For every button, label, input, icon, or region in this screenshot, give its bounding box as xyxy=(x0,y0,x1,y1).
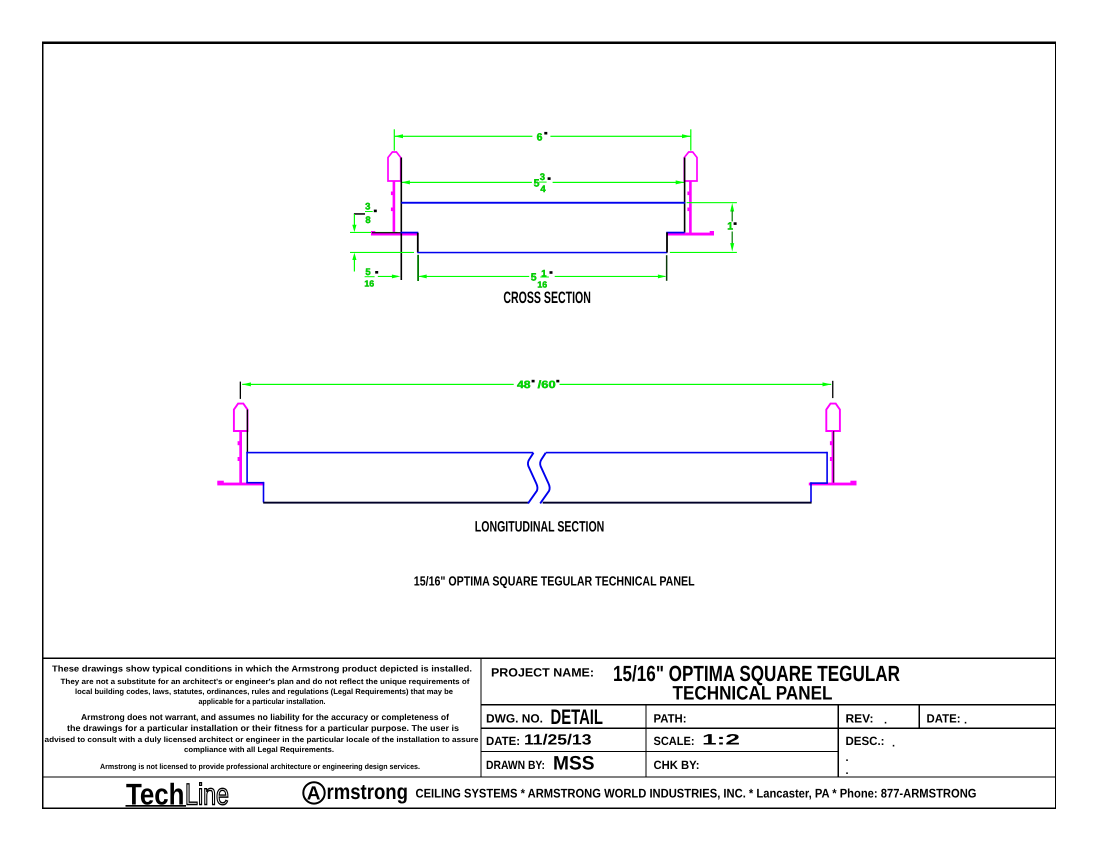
dim 1" extension top xyxy=(687,202,737,203)
svg-text:48: 48 xyxy=(517,379,531,391)
panel bottom line (blue) xyxy=(417,252,667,254)
dim 48/60 line xyxy=(242,384,514,385)
panel bottom line right segment (dark navy) xyxy=(543,502,812,504)
left tee bulb xyxy=(388,152,401,181)
svg-text:DETAIL: DETAIL xyxy=(551,706,604,729)
left tee stem notch upper xyxy=(238,441,240,445)
svg-text:DWG. NO.: DWG. NO. xyxy=(486,712,543,726)
svg-text:DATE:: DATE: xyxy=(927,712,961,726)
dim 5 3/4" line xyxy=(401,182,532,183)
panel top line right segment (blue) xyxy=(546,452,828,454)
vline path/rev xyxy=(837,704,838,778)
left tee stem notch lower xyxy=(391,208,393,212)
svg-text:5: 5 xyxy=(531,272,537,284)
dim 48/60 arrow left xyxy=(242,382,251,386)
panel right edge (blue) xyxy=(826,452,828,484)
svg-text:3: 3 xyxy=(365,202,370,213)
dim 1" arrow top xyxy=(730,203,734,212)
svg-text:These drawings show typical co: These drawings show typical conditions i… xyxy=(52,664,472,674)
svg-text:15/16" OPTIMA SQUARE TEGULAR T: 15/16" OPTIMA SQUARE TEGULAR TECHNICAL P… xyxy=(414,574,695,589)
right tee stem notch upper xyxy=(687,192,689,196)
left tee stem notch lower xyxy=(238,457,240,461)
svg-text:CROSS SECTION: CROSS SECTION xyxy=(503,289,591,307)
svg-text:.: . xyxy=(964,715,967,727)
disclaimer/project divider vline xyxy=(480,658,481,778)
svg-text:5: 5 xyxy=(534,178,540,190)
extension line y=232 left xyxy=(350,232,398,233)
svg-text:PATH:: PATH: xyxy=(654,712,687,726)
panel left edge (blue) xyxy=(246,452,248,483)
right tee stem xyxy=(689,181,692,234)
svg-text:the drawings for a particular: the drawings for a particular installati… xyxy=(67,723,459,733)
break squiggle right (blue) xyxy=(540,453,549,504)
panel top line left segment (blue) xyxy=(246,452,533,454)
svg-text:MSS: MSS xyxy=(553,753,595,775)
panel left lip edge (black) xyxy=(417,233,419,253)
svg-text:11/25/13: 11/25/13 xyxy=(524,733,592,749)
hline under project name row xyxy=(480,704,1056,705)
panel top line (blue) xyxy=(401,202,685,204)
dim 1" line lower (dark) xyxy=(732,232,733,244)
svg-text:local building codes, laws, st: local building codes, laws, statutes, or… xyxy=(75,687,453,696)
svg-text:A: A xyxy=(307,783,321,804)
break squiggle left (blue) xyxy=(528,453,537,504)
dim 48/60 arrow right xyxy=(823,382,832,386)
left panel edge line (black) xyxy=(401,158,403,281)
svg-text:TECHNICAL PANEL: TECHNICAL PANEL xyxy=(673,682,833,704)
svg-text:LONGITUDINAL SECTION: LONGITUDINAL SECTION xyxy=(475,519,605,536)
right tee flange xyxy=(667,233,714,236)
flange top shadow line xyxy=(372,232,401,233)
svg-text:Armstrong is not licensed to p: Armstrong is not licensed to provide pro… xyxy=(100,762,420,771)
vline rev/date xyxy=(918,704,919,729)
left tee stem xyxy=(393,181,396,234)
hline under date row xyxy=(480,751,839,752)
dim 48/60 extension left (black) xyxy=(240,382,241,399)
dim 3/8 tick (black) xyxy=(354,213,365,215)
left tee bulb xyxy=(234,404,248,431)
svg-text:Armstrong does not warrant, an: Armstrong does not warrant, and assumes … xyxy=(81,712,449,722)
panel right step (blue) xyxy=(810,482,828,484)
left panel edge ext (black) xyxy=(247,410,248,453)
svg-text:.: . xyxy=(892,738,895,750)
svg-text:CHK BY:: CHK BY: xyxy=(654,758,700,772)
svg-text:8: 8 xyxy=(365,215,370,226)
dim 5 1/16 line right xyxy=(555,276,666,277)
dim 1" arrow bottom xyxy=(730,243,734,252)
svg-text:applicable for a particular in: applicable for a particular installation… xyxy=(199,697,326,706)
panel right step line (blue) xyxy=(666,232,684,234)
panel bottom line left segment (dark navy) xyxy=(263,502,528,504)
left tee flange xyxy=(371,233,418,236)
svg-text:3: 3 xyxy=(540,172,545,183)
title block bottom line (above logo strip) xyxy=(42,776,1056,777)
svg-text:DATE:: DATE: xyxy=(486,734,520,748)
right lower extension (black) xyxy=(666,255,668,281)
panel left step line (blue) xyxy=(401,232,419,234)
right tee stem notch lower xyxy=(687,208,689,212)
dim 5 3/4" arrow right xyxy=(676,180,685,184)
svg-text:1:2: 1:2 xyxy=(702,732,740,749)
right tee stem notch upper xyxy=(830,441,832,445)
svg-text:PROJECT NAME:: PROJECT NAME: xyxy=(491,665,594,679)
right tee flange hem xyxy=(850,481,856,484)
vline dwg/path xyxy=(645,704,646,778)
title block top line xyxy=(42,658,1056,659)
svg-text:DESC.:: DESC.: xyxy=(846,734,885,748)
dim 1" extension bottom xyxy=(670,252,737,253)
svg-text:.: . xyxy=(846,765,849,777)
svg-text:SCALE:: SCALE: xyxy=(654,734,695,748)
dim 6" extension line left xyxy=(394,129,395,150)
TechLine logo xyxy=(126,778,230,811)
panel right lip edge (black) xyxy=(666,232,668,252)
right tee flange hem xyxy=(710,231,714,233)
dim 48/60 extension right (black) xyxy=(832,381,833,398)
panel left lip edge (blue) xyxy=(263,482,265,503)
dim 6" arrow left xyxy=(394,134,403,138)
dim 5 3/4" arrow left xyxy=(401,180,410,184)
left tee flange hem xyxy=(217,481,224,484)
extension line y=252.4 left xyxy=(350,252,414,253)
dim 1" line upper (dark) xyxy=(732,211,733,222)
left tee stem xyxy=(239,431,242,483)
left tee stem notch upper xyxy=(391,192,393,196)
svg-text:DRAWN BY:: DRAWN BY: xyxy=(486,758,545,772)
dim 5/16 line and arrows xyxy=(378,276,398,277)
dim 5 1/16 line left arrow xyxy=(418,275,427,279)
right tee bulb xyxy=(826,404,840,431)
svg-text:advised to consult with a duly: advised to consult with a duly licensed … xyxy=(45,735,479,744)
svg-text:REV:: REV: xyxy=(846,712,874,726)
hline under dwg row xyxy=(480,728,1056,729)
svg-text:16: 16 xyxy=(364,279,374,289)
svg-text:rmstrong: rmstrong xyxy=(327,780,409,804)
right tee stem core line (black) xyxy=(832,431,835,484)
panel left step (blue) xyxy=(246,482,264,484)
svg-text:compliance with all Legal Requ: compliance with all Legal Requirements. xyxy=(184,745,334,754)
svg-text:CEILING SYSTEMS * ARMSTRONG WO: CEILING SYSTEMS * ARMSTRONG WORLD INDUST… xyxy=(416,786,977,800)
right tee stem notch lower xyxy=(830,457,832,461)
dim 6" extension line right xyxy=(690,129,691,150)
dim 6" line xyxy=(394,136,532,137)
left tee flange xyxy=(217,483,264,486)
right tee stem xyxy=(832,431,835,483)
svg-text:1: 1 xyxy=(727,221,733,233)
svg-text:They are not a substitute for: They are not a substitute for an archite… xyxy=(61,677,470,686)
dim 3/8 lower leg xyxy=(352,253,356,260)
right tee flange xyxy=(809,483,857,486)
svg-text:16: 16 xyxy=(537,280,547,290)
svg-text:.: . xyxy=(884,715,887,727)
left tee flange hem xyxy=(371,231,375,233)
left lower extension (dark green) xyxy=(417,255,419,281)
dim 3/8 upper leg xyxy=(354,214,355,228)
panel right lip edge (blue) xyxy=(810,482,812,502)
svg-text:Line: Line xyxy=(185,778,229,811)
svg-text:4: 4 xyxy=(540,184,546,195)
svg-text:/60: /60 xyxy=(538,379,556,391)
svg-text:.: . xyxy=(846,752,849,764)
right tee bulb xyxy=(684,152,697,181)
dim 6" arrow right xyxy=(682,134,691,138)
Armstrong logo xyxy=(303,780,408,804)
disclaimer paragraph xyxy=(45,664,479,772)
right panel edge line (black) xyxy=(684,158,686,233)
svg-text:1: 1 xyxy=(541,268,547,279)
svg-text:6: 6 xyxy=(537,131,543,143)
